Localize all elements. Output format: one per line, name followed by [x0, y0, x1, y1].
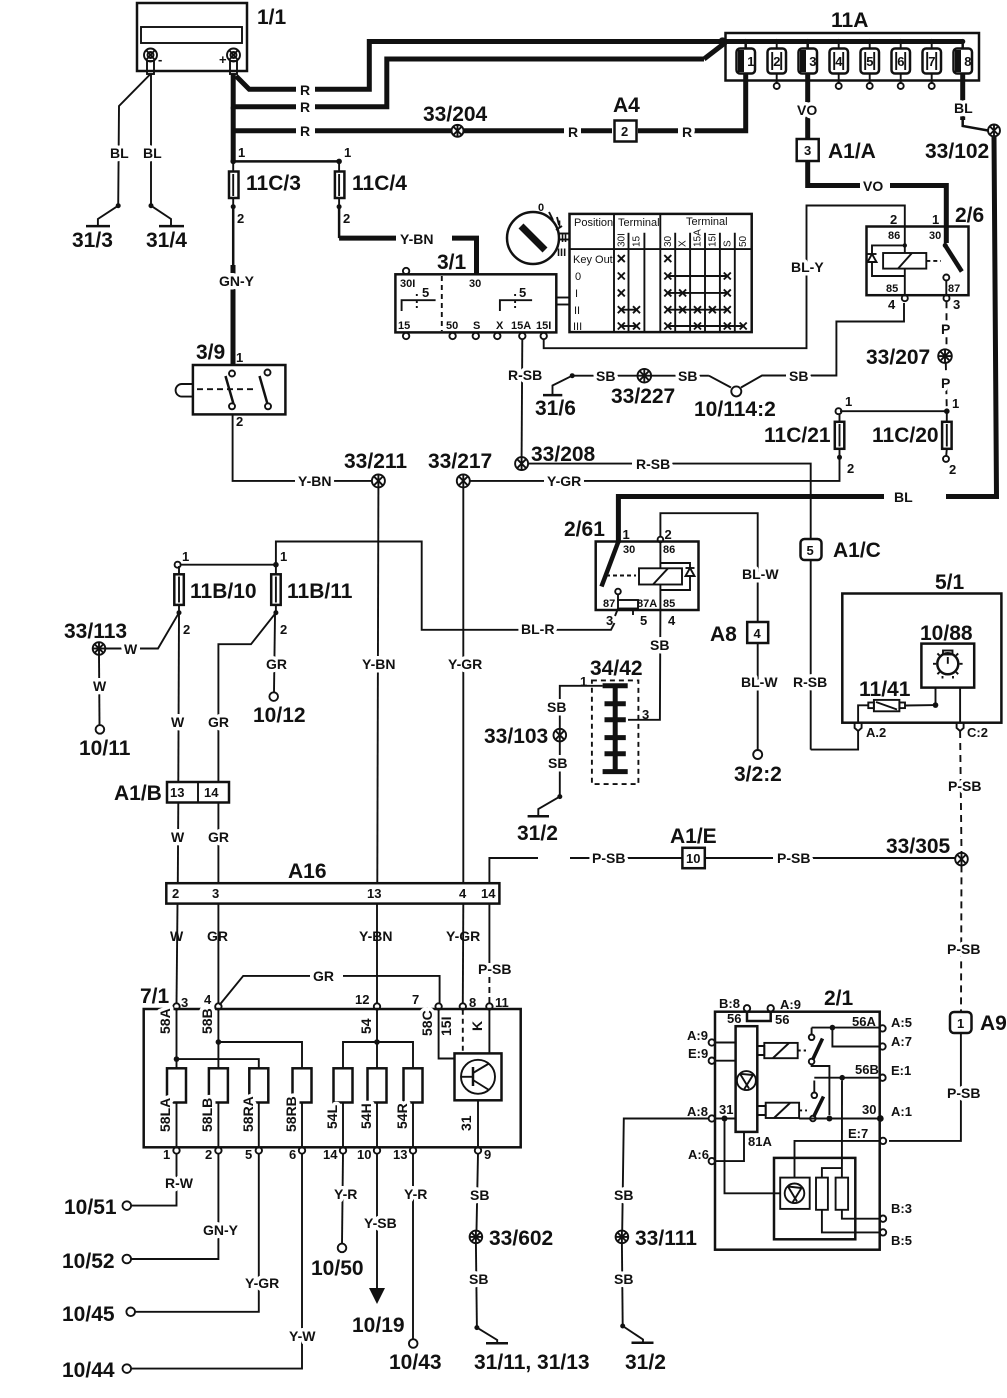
svg-text:GR: GR	[266, 656, 287, 672]
connector A1/B 13 14	[114, 782, 229, 805]
wire SB 2/61 pin4 to 34/42 pin 3	[628, 610, 669, 720]
svg-text:A1/A: A1/A	[828, 140, 876, 163]
svg-text:Y-R: Y-R	[334, 1186, 357, 1202]
wire GR A1/B to A16 pin 3	[207, 803, 229, 945]
svg-text:A:8: A:8	[687, 1104, 708, 1119]
wire R-SB A1/C down to 5/1 A.2	[793, 560, 858, 750]
wire VO fuse3 to A1/A	[797, 81, 817, 140]
svg-text:1: 1	[163, 1147, 170, 1162]
pin B:8 (2/1)	[719, 996, 750, 1012]
svg-text:1: 1	[747, 54, 754, 69]
svg-text:P: P	[941, 375, 950, 391]
wire Y-BN 33/211 to A16 pin 13	[359, 487, 395, 944]
svg-text:7/1: 7/1	[140, 985, 170, 1008]
svg-text:W: W	[171, 714, 185, 730]
svg-text:BL: BL	[954, 100, 973, 116]
svg-text:SB: SB	[650, 637, 669, 653]
svg-text:A:9: A:9	[687, 1028, 708, 1043]
svg-text:P: P	[941, 321, 950, 337]
wire Y-SB pin10 to 10/19	[364, 1154, 397, 1288]
svg-text:3: 3	[953, 297, 960, 312]
svg-text:31/11, 31/13: 31/11, 31/13	[474, 1351, 590, 1374]
svg-text:54R: 54R	[394, 1103, 410, 1129]
svg-text:11/41: 11/41	[859, 678, 911, 701]
svg-text:A:6: A:6	[688, 1147, 709, 1162]
svg-text:1: 1	[623, 527, 630, 542]
node 1 junction 11C/3	[230, 145, 351, 164]
svg-text:2: 2	[237, 211, 244, 226]
svg-text:R: R	[300, 99, 310, 115]
svg-text:31/4: 31/4	[146, 229, 187, 252]
svg-text:I: I	[558, 219, 561, 231]
svg-text:10: 10	[686, 851, 700, 866]
svg-text:2: 2	[205, 1147, 212, 1162]
pin A:5 (2/1)	[852, 1014, 912, 1032]
terminal 10/11	[79, 725, 131, 760]
wire Y-GR pin5 to 10/45	[135, 1154, 279, 1312]
wire 10/88 to C:2	[959, 688, 961, 723]
svg-text:9: 9	[484, 1147, 491, 1162]
svg-text:15I: 15I	[707, 233, 718, 247]
wire W 11B/10 pin2 to A1/B 13	[171, 613, 185, 782]
terminal 10/43	[389, 1339, 442, 1374]
svg-text:A:9: A:9	[780, 997, 801, 1012]
svg-text:1: 1	[344, 145, 351, 160]
wire Y-R pin13 to 10/43	[404, 1154, 427, 1339]
svg-text:33/103: 33/103	[484, 725, 548, 748]
svg-text:BL-W: BL-W	[742, 566, 779, 582]
svg-text:Key Out: Key Out	[573, 254, 613, 266]
svg-text:P-SB: P-SB	[592, 850, 625, 866]
svg-text:12: 12	[355, 992, 369, 1007]
ignition position table	[570, 214, 752, 333]
svg-text:30I: 30I	[616, 233, 627, 247]
svg-text:Y-GR: Y-GR	[245, 1275, 279, 1291]
pin X (3/1)	[494, 333, 500, 339]
wire BL-W 2/61 pin2 to A8	[660, 513, 779, 622]
svg-text:15I: 15I	[438, 1017, 454, 1036]
fuse 11C/4	[335, 161, 407, 226]
lamp 58LB	[199, 1068, 228, 1132]
svg-text:III: III	[557, 247, 566, 259]
connector A1/A pin 3	[797, 139, 876, 163]
svg-text:10/45: 10/45	[62, 1303, 115, 1326]
svg-text:33/217: 33/217	[428, 450, 492, 473]
svg-text:VO: VO	[797, 102, 817, 118]
svg-text:11C/20: 11C/20	[872, 424, 939, 447]
wire R battery to fuse box (upper)	[236, 38, 746, 98]
relay 2/6 coil	[883, 227, 926, 302]
wire GN-Y 11C/3 to 3/9	[219, 207, 255, 366]
svg-text:4: 4	[204, 992, 212, 1007]
svg-text:1: 1	[957, 1016, 964, 1031]
svg-text:31/6: 31/6	[535, 397, 576, 420]
connector 33/602	[469, 1227, 553, 1250]
lamp 58LA	[157, 1068, 186, 1132]
wire GR 7/1 pin4 to pin7	[220, 968, 440, 1005]
wire W 33/113 to 11B/10 pin2	[105, 613, 179, 657]
svg-text:8: 8	[469, 995, 476, 1010]
fuse 1 (11A)	[737, 39, 756, 81]
pin E:1 (2/1)	[855, 1062, 911, 1081]
terminal 10/50	[311, 1244, 364, 1280]
wire W A1/B to A16 pin 2	[170, 803, 185, 945]
svg-text:X: X	[678, 240, 689, 247]
wire R-W pin1 to 10/51	[131, 1154, 194, 1206]
fuse 4 (11A)	[830, 39, 849, 89]
svg-text:K: K	[469, 1021, 485, 1031]
ignition key symbol	[507, 202, 567, 264]
svg-text:2/61: 2/61	[564, 518, 605, 541]
wire VO A1/A to relay 2/6 pin 1	[808, 161, 947, 243]
pin A:8 (2/1)	[687, 1104, 715, 1122]
pin A:9 left (2/1)	[687, 1028, 715, 1046]
fuse 11B/11	[271, 549, 353, 637]
connector A4 pin 2	[613, 94, 640, 142]
bottom pins 7/1	[177, 1103, 414, 1148]
control unit 5/1	[842, 571, 1001, 723]
svg-text:13: 13	[393, 1147, 407, 1162]
connector 33/113	[64, 620, 127, 655]
svg-text:56B: 56B	[855, 1062, 879, 1077]
svg-text:Y-BN: Y-BN	[362, 656, 395, 672]
lower coil (2/1)	[757, 1103, 807, 1118]
svg-text:4: 4	[888, 297, 896, 312]
svg-text:11C/4: 11C/4	[352, 172, 407, 195]
svg-text:33/305: 33/305	[886, 835, 951, 858]
pin 15 (3/1)	[403, 333, 409, 339]
svg-text:10/114:2: 10/114:2	[694, 398, 776, 421]
connector A9 pin 1	[950, 1012, 1007, 1035]
svg-text:2: 2	[236, 414, 243, 429]
svg-text:14: 14	[323, 1147, 338, 1162]
wire right resistor to B:3	[842, 1210, 880, 1219]
svg-text:33/211: 33/211	[344, 450, 407, 473]
svg-text:86: 86	[888, 230, 900, 242]
svg-text:A:7: A:7	[891, 1034, 912, 1049]
fuse box 11A	[726, 9, 980, 81]
pin A:9 top (2/1)	[768, 997, 801, 1012]
svg-text:33/204: 33/204	[423, 103, 488, 126]
svg-text:56: 56	[775, 1012, 789, 1027]
svg-text:SB: SB	[548, 755, 567, 771]
svg-text:BL: BL	[110, 145, 129, 161]
svg-text:6: 6	[289, 1147, 296, 1162]
svg-text:3/9: 3/9	[196, 341, 225, 364]
svg-text:1: 1	[845, 394, 852, 409]
svg-text:R-W: R-W	[165, 1175, 194, 1191]
svg-text:10/43: 10/43	[389, 1351, 442, 1374]
connector A8 pin 4	[710, 622, 768, 646]
wire P-SB 33/305 to A9	[947, 865, 980, 1012]
svg-text:S: S	[722, 240, 733, 247]
svg-text:A9: A9	[980, 1012, 1007, 1035]
svg-text:SB: SB	[678, 368, 697, 384]
connector 33/102	[925, 125, 1000, 164]
terminal 10/52	[62, 1250, 131, 1273]
pin 4 (7/1)	[204, 992, 222, 1010]
pin 7 (7/1)	[412, 992, 442, 1010]
svg-text:85: 85	[663, 598, 675, 610]
left resistor (2/1)	[816, 1168, 842, 1210]
wire A:6 stub	[715, 1132, 744, 1161]
svg-text:2/1: 2/1	[824, 987, 854, 1010]
pin 12 (7/1)	[355, 992, 380, 1010]
wire R-SB 15A to 33/208	[508, 339, 542, 457]
wire SB 34/42 pin1 to 33/103	[547, 686, 603, 729]
svg-text:E:7: E:7	[848, 1126, 868, 1141]
svg-text:Y-GR: Y-GR	[448, 656, 482, 672]
svg-text:VO: VO	[863, 178, 883, 194]
svg-text:86: 86	[663, 544, 675, 556]
svg-text:BL-W: BL-W	[741, 674, 778, 690]
svg-text:3: 3	[809, 54, 816, 69]
svg-text:2: 2	[949, 462, 956, 477]
wire left resistor to B:5	[822, 1210, 880, 1233]
node 31 (2/1)	[715, 1102, 736, 1122]
pin A:6 (2/1)	[688, 1147, 715, 1164]
svg-text:31/3: 31/3	[72, 229, 113, 252]
svg-text:II: II	[574, 305, 580, 317]
lamp 54H	[358, 1068, 387, 1129]
svg-text:P-SB: P-SB	[777, 850, 810, 866]
clock 10/88	[920, 622, 974, 688]
svg-text:A16: A16	[288, 860, 327, 883]
pin C:2 (5/1)	[957, 723, 988, 740]
ground 31/4	[146, 226, 187, 252]
svg-text:5: 5	[422, 285, 429, 300]
wire SB 10/114:2 to relay 2/6 pin 4	[741, 303, 904, 388]
upper coil (2/1)	[757, 1043, 806, 1058]
svg-text:0: 0	[538, 202, 544, 214]
lower switch (2/1)	[810, 1081, 823, 1122]
fuse 8 (11A)	[954, 39, 973, 81]
svg-text:SB: SB	[469, 1271, 488, 1287]
wire Y-R pin14 to 10/50	[334, 1154, 357, 1244]
svg-text:2: 2	[847, 461, 854, 476]
resistor 11/41	[859, 678, 911, 711]
svg-text:SB: SB	[470, 1187, 489, 1203]
svg-text:GR: GR	[313, 968, 334, 984]
pin 1 (7/1)	[163, 1147, 180, 1162]
svg-text:B:5: B:5	[891, 1233, 912, 1248]
wire 56A to A:5 A:7	[812, 1025, 880, 1047]
terminal 3/2:2	[734, 750, 782, 786]
svg-text:BL: BL	[894, 489, 913, 505]
svg-text:III: III	[573, 321, 582, 333]
svg-text:R: R	[300, 82, 310, 98]
battery 1/1	[137, 3, 287, 71]
svg-text:10/19: 10/19	[352, 1314, 405, 1337]
relay 2/61 coil	[639, 537, 682, 610]
svg-text:33/227: 33/227	[611, 385, 675, 408]
svg-text:31: 31	[458, 1115, 474, 1131]
svg-text:Y-BN: Y-BN	[298, 473, 331, 489]
right resistor (2/1)	[836, 1178, 849, 1210]
wire W 33/113 to 10/11	[93, 655, 107, 725]
svg-text:Position: Position	[574, 217, 613, 229]
svg-text:4: 4	[668, 613, 676, 628]
svg-text:30: 30	[862, 1102, 876, 1117]
svg-text:A4: A4	[613, 94, 640, 117]
svg-text:0: 0	[575, 271, 581, 283]
wire 54 feed	[343, 1010, 413, 1069]
wire GR 11B/11 pin2 to A1/B 14	[208, 613, 276, 782]
svg-text:A8: A8	[710, 623, 737, 646]
wire SB 31/6 to 33/227	[572, 368, 637, 384]
svg-text:1: 1	[952, 396, 959, 411]
battery positive terminal	[219, 49, 240, 75]
relay 2/6 diode	[868, 245, 905, 276]
svg-text:R-SB: R-SB	[793, 674, 827, 690]
svg-text:2: 2	[343, 211, 350, 226]
fuse 7 (11A)	[923, 39, 942, 89]
svg-text:R: R	[568, 124, 578, 140]
svg-text:5: 5	[640, 613, 647, 628]
svg-text:2: 2	[890, 212, 897, 227]
svg-text:4: 4	[459, 886, 467, 901]
svg-text:5: 5	[245, 1147, 252, 1162]
svg-text:BL: BL	[143, 145, 162, 161]
fuse 11C/3	[229, 161, 301, 226]
svg-text:10/51: 10/51	[64, 1196, 117, 1219]
fuse 6 (11A)	[892, 39, 911, 89]
svg-text:81A: 81A	[748, 1134, 772, 1149]
wire P-SB A16 pin14 up to A1/E line	[489, 858, 538, 883]
wire SB 33/103 to ground 31/2	[538, 741, 567, 816]
svg-text:34/42: 34/42	[590, 657, 643, 680]
svg-text:58RA: 58RA	[240, 1096, 256, 1132]
svg-text:SB: SB	[614, 1187, 633, 1203]
svg-text:58A: 58A	[157, 1008, 173, 1034]
svg-text:W: W	[124, 641, 138, 657]
wire P-SB A9 to 2/1 E:7	[889, 1033, 980, 1141]
lamp 54R	[394, 1068, 423, 1129]
wire R battery second feed	[233, 43, 725, 116]
connector strip A16	[166, 860, 499, 904]
svg-text:10/12: 10/12	[253, 704, 306, 727]
wire P 33/207 to 11C/20 pin 1	[941, 363, 959, 414]
pin 10 (7/1)	[357, 1147, 380, 1162]
svg-text:4: 4	[835, 54, 843, 69]
svg-text:SB: SB	[614, 1271, 633, 1287]
svg-text:A1/B: A1/B	[114, 782, 162, 805]
wire Y-GR 33/217 to A16 pin 4	[446, 487, 482, 944]
ground distribution 34/42	[580, 657, 649, 784]
relay unit 2/1	[715, 987, 880, 1250]
svg-text:A1/C: A1/C	[833, 539, 881, 562]
terminal 10/51	[64, 1196, 131, 1219]
svg-text:R-SB: R-SB	[636, 456, 670, 472]
wire Y-GR A16 to 7/1 pin 8	[462, 904, 465, 1004]
svg-text:SB: SB	[789, 368, 808, 384]
svg-text:Y-BN: Y-BN	[359, 928, 392, 944]
wire Y-W pin6 to 10/44	[131, 1154, 316, 1369]
svg-text:GR: GR	[208, 714, 229, 730]
pin 15I (3/1)	[541, 333, 547, 339]
svg-text:4: 4	[754, 626, 762, 641]
svg-text:10/44: 10/44	[62, 1359, 115, 1382]
fuse 2 (11A)	[768, 39, 787, 89]
svg-text:15: 15	[398, 320, 410, 332]
pin A.2 (5/1)	[855, 723, 887, 740]
terminal 10/44	[62, 1359, 131, 1382]
svg-text:30: 30	[663, 235, 674, 247]
wire GN-Y pin2 to 10/52	[131, 1154, 239, 1259]
connector 10/114:2	[694, 386, 776, 421]
connector 33/305	[886, 835, 968, 866]
svg-text:Y-SB: Y-SB	[364, 1215, 397, 1231]
battery negative terminal	[144, 49, 162, 75]
svg-text:10/52: 10/52	[62, 1250, 115, 1273]
svg-text:10: 10	[357, 1147, 371, 1162]
svg-text:GN-Y: GN-Y	[203, 1222, 239, 1238]
svg-text:15I: 15I	[536, 320, 551, 332]
svg-text:2/6: 2/6	[955, 204, 984, 227]
connector 33/227	[611, 369, 675, 408]
svg-text:30: 30	[469, 278, 481, 290]
svg-text:87A: 87A	[637, 598, 657, 610]
ground 31/3	[72, 226, 113, 252]
svg-text:W: W	[171, 829, 185, 845]
svg-text:8: 8	[964, 54, 971, 69]
wire 30 line to A:1	[799, 1116, 877, 1122]
svg-text:10/88: 10/88	[920, 622, 973, 645]
svg-text:2: 2	[183, 622, 190, 637]
svg-text:Terminal: Terminal	[618, 217, 660, 229]
svg-text:11B/11: 11B/11	[287, 580, 353, 603]
svg-text:X: X	[496, 320, 504, 332]
svg-text:10/50: 10/50	[311, 1257, 364, 1280]
wire Y-BN 11C/4 to ignition 3/1 terminal 30	[339, 207, 476, 275]
svg-text:58LB: 58LB	[199, 1098, 215, 1132]
wire 58C into transistor	[439, 1010, 455, 1059]
pin B:3 (2/1)	[880, 1201, 912, 1222]
svg-text:87: 87	[948, 283, 960, 295]
svg-text:11A: 11A	[831, 9, 868, 32]
connector A1/E pin 10	[670, 825, 717, 868]
svg-text:Y-BN: Y-BN	[400, 231, 433, 247]
wire 56B to E:1	[814, 1075, 879, 1081]
wire A:9 to lamp unit	[715, 1042, 736, 1044]
svg-text:BL-R: BL-R	[521, 621, 554, 637]
svg-text:33/602: 33/602	[489, 1227, 553, 1250]
connector 33/211	[344, 450, 407, 488]
svg-text:A:5: A:5	[891, 1015, 912, 1030]
connector 33/207	[866, 346, 952, 369]
label 81A	[725, 1119, 781, 1194]
svg-text:S: S	[473, 320, 480, 332]
sub box (2/1)	[774, 1158, 855, 1239]
wire 11/41 to A.2	[858, 705, 868, 722]
svg-text:33/113: 33/113	[64, 620, 127, 643]
svg-text:W: W	[93, 678, 107, 694]
svg-text:B:8: B:8	[719, 996, 740, 1011]
svg-text:54L: 54L	[324, 1104, 340, 1129]
pin B:5 (2/1)	[880, 1229, 912, 1248]
svg-text:GN-Y: GN-Y	[219, 273, 255, 289]
wire SB 33/602 to ground	[469, 1243, 497, 1343]
svg-text:11C/3: 11C/3	[246, 172, 301, 195]
svg-text:SB: SB	[596, 368, 615, 384]
fuse 11C/21	[764, 414, 854, 476]
svg-text:87: 87	[603, 598, 615, 610]
svg-text:5/1: 5/1	[935, 571, 965, 594]
wire P 2/6 pin3 to 33/207	[941, 301, 950, 348]
svg-text:Y-W: Y-W	[289, 1328, 316, 1344]
svg-text:3: 3	[804, 143, 811, 158]
wire BL to 31/4	[143, 74, 171, 226]
